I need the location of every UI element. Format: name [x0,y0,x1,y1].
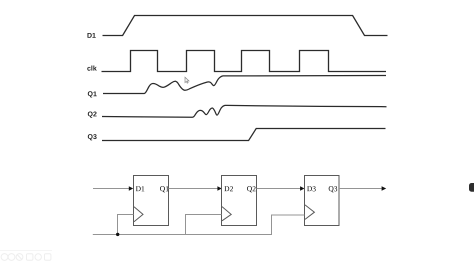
wire waveform Q1 [103,76,386,94]
wire Q3 output [339,188,382,190]
flip-flop U2 box [222,176,257,226]
flip-flop U1 pin label Q1 [160,184,169,193]
wire waveform Q3 [102,129,386,141]
svg-text:clk: clk [87,66,97,73]
arrowhead Q3 output [382,186,387,190]
svg-text:D1: D1 [87,33,96,40]
flip-flop U3 clock triangle [305,205,314,220]
svg-text:Q2: Q2 [247,184,256,193]
node Q3 label [87,134,96,141]
flip-flop U3 box [305,176,340,226]
svg-text:D3: D3 [307,184,316,193]
mouse cursor pointer [185,77,189,83]
arrowhead into D3 pin [300,186,304,190]
arrowhead into D2 pin [217,186,221,190]
wire clock bus horizontal [93,234,272,236]
watermark icons bottom left [0,251,52,261]
junction dot on clock bus [116,233,119,236]
svg-text:D1: D1 [136,184,145,193]
node clk label [87,66,97,73]
wire Q1 to D2 [169,188,219,190]
flip-flop U1 clock triangle [134,207,143,222]
svg-text:Q1: Q1 [160,184,169,193]
wire waveform D1 [103,16,388,36]
svg-text:Q1: Q1 [87,91,96,98]
scrollbar thumb right edge [469,183,474,192]
node Q2 label [87,111,96,118]
flip-flop U2 clock triangle [222,207,231,221]
flip-flop U2 pin label D2 [224,184,233,193]
svg-text:Q3: Q3 [87,134,96,141]
wire waveform clk [102,51,387,72]
flip-flop U2 pin label Q2 [247,184,256,193]
flip-flop U3 pin label Q3 [328,184,337,193]
wire Q2 to D3 [257,188,301,190]
wire clock riser to U3 [272,215,305,235]
flip-flop U3 pin label D3 [307,184,316,193]
node Q1 label [87,91,96,98]
flip-flop U1 box [134,176,169,226]
wire waveform Q2 [102,105,387,117]
svg-text:D2: D2 [224,184,233,193]
wire clock riser to U1 [118,215,134,236]
node D1 label [87,33,96,40]
arrowhead into D1 pin [129,186,133,190]
svg-text:Q3: Q3 [328,184,337,193]
wire clock riser to U2 [186,215,222,236]
svg-text:Q2: Q2 [87,111,96,118]
wire input to D1 [93,188,130,190]
flip-flop U1 pin label D1 [136,184,145,193]
